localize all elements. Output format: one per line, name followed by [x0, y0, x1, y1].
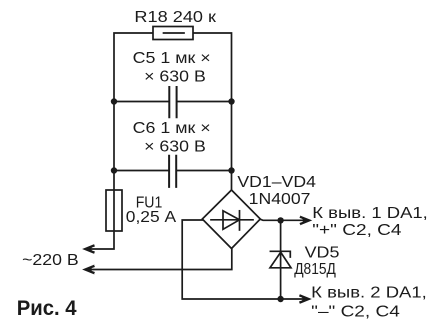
svg-text:Д815Д: Д815Д: [294, 261, 336, 278]
wire VD5 branch: [280, 220, 282, 299]
svg-text:C6 1 мк ×: C6 1 мк ×: [133, 120, 211, 137]
wire plus output: [260, 219, 303, 220]
svg-text:К выв. 2 DA1,: К выв. 2 DA1,: [311, 285, 427, 302]
svg-text:К выв. 1 DA1,: К выв. 1 DA1,: [312, 205, 428, 222]
node C5 left junction: [111, 98, 117, 104]
resistor R1 (R18): [153, 27, 193, 40]
wire AC line 2: [87, 249, 232, 270]
wire C5 row: [114, 101, 232, 103]
svg-text:VD5: VD5: [305, 245, 340, 262]
node C5 right junction: [228, 98, 234, 104]
svg-text:C5 1 мк ×: C5 1 мк ×: [133, 50, 211, 67]
capacitor C6: [169, 156, 176, 187]
svg-text:× 630 В: × 630 В: [144, 69, 206, 86]
svg-text:0,25 А: 0,25 А: [126, 209, 177, 226]
node VD5 top junction: [277, 217, 283, 223]
svg-text:"+" C2, C4: "+" C2, C4: [312, 222, 401, 239]
arrow plus output: [300, 217, 311, 224]
bridge rectifier VD1-VD4: [202, 190, 260, 249]
zener diode VD5: [270, 251, 290, 257]
fuse FU1: [106, 190, 122, 231]
svg-text:R18 240 к: R18 240 к: [134, 9, 217, 26]
node C6 right junction: [228, 167, 234, 173]
wire minus output: [182, 220, 303, 299]
node VD5 bottom junction: [277, 296, 283, 302]
wire top right segment: [193, 33, 232, 190]
arrow mains line 1: [84, 246, 95, 253]
svg-text:1N4007: 1N4007: [249, 191, 311, 208]
svg-text:Рис. 4: Рис. 4: [17, 297, 77, 320]
svg-text:VD1–VD4: VD1–VD4: [237, 174, 316, 191]
arrow mains line 2: [84, 266, 95, 273]
wire top loop left rail: [87, 33, 153, 249]
svg-text:~220 В: ~220 В: [22, 252, 79, 269]
svg-text:"–" C2, C4: "–" C2, C4: [311, 304, 400, 321]
node C6 left junction: [111, 167, 117, 173]
arrow minus output: [299, 296, 310, 303]
svg-text:× 630 В: × 630 В: [144, 139, 206, 156]
wire C6 row: [114, 170, 232, 172]
capacitor C5: [169, 87, 176, 117]
